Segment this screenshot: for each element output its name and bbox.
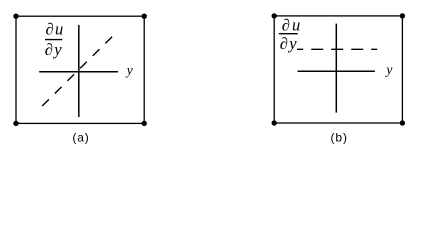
plot (b) fraction bar	[279, 33, 298, 35]
svg-text:∂: ∂	[45, 40, 53, 59]
svg-text:y: y	[125, 62, 133, 77]
plot (b) vertical axis	[335, 24, 337, 113]
svg-text:u: u	[55, 20, 63, 39]
plot (b) dashed horizontal line	[297, 48, 377, 50]
plot (a) fraction bar	[45, 39, 62, 41]
plot (a) frame	[16, 16, 144, 123]
plot (a) horizontal axis	[39, 71, 118, 73]
svg-text:∂: ∂	[280, 34, 288, 53]
svg-text:(a): (a)	[72, 131, 89, 145]
plot (a) du/dy fraction label	[45, 20, 64, 59]
svg-text:(b): (b)	[331, 131, 348, 145]
svg-text:∂: ∂	[282, 16, 290, 35]
svg-text:y: y	[287, 34, 297, 53]
plot (a) vertical axis	[78, 25, 80, 117]
plot (b) horizontal axis	[298, 70, 375, 72]
plot (a) dashed diagonal line	[42, 35, 113, 106]
svg-text:∂: ∂	[46, 20, 54, 39]
plot (a) corner dots	[13, 14, 147, 127]
svg-text:y: y	[52, 40, 62, 59]
svg-text:y: y	[384, 62, 392, 77]
svg-text:u: u	[292, 16, 300, 35]
plot (b) corner dots	[272, 13, 406, 126]
plot (b) du/dy fraction label	[280, 16, 300, 53]
plot (b) frame	[274, 16, 402, 123]
